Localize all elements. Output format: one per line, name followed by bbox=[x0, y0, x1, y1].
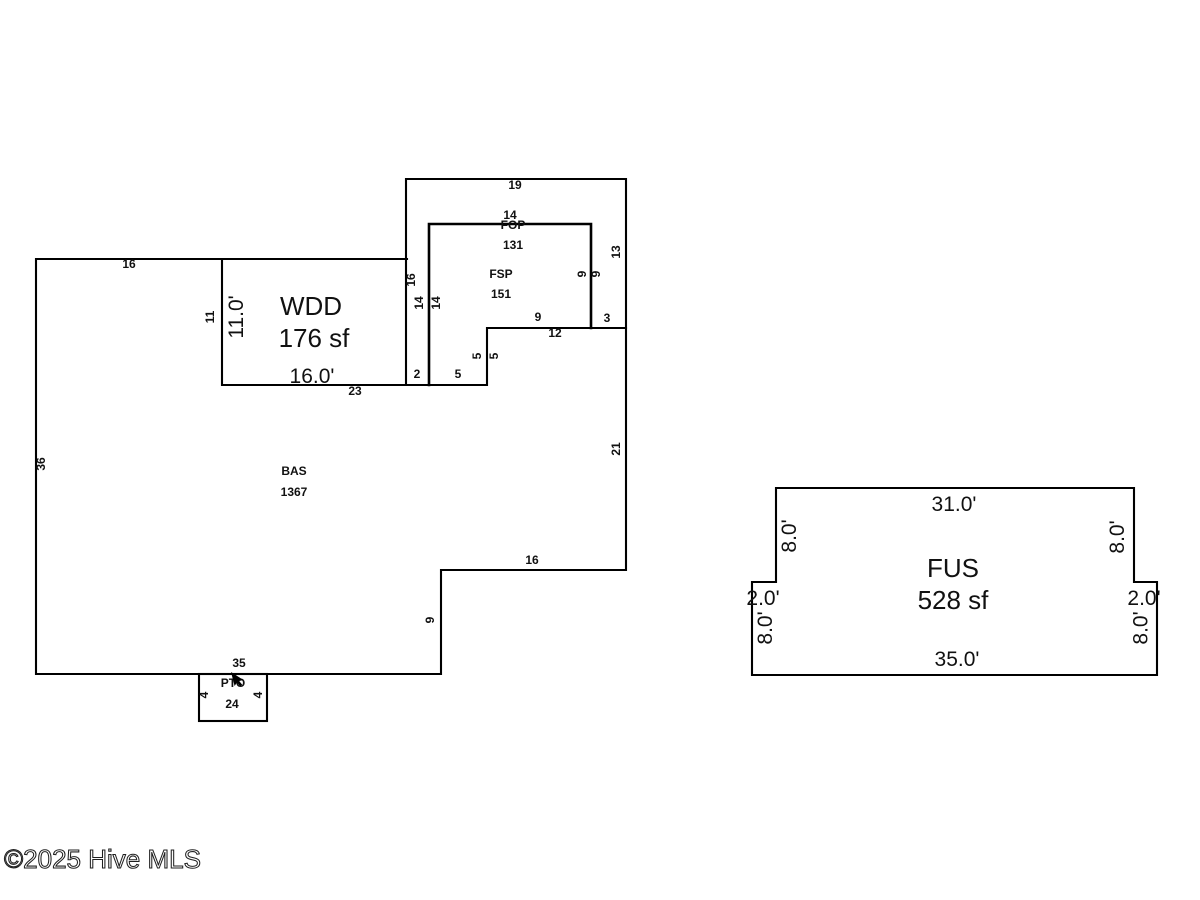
svg-text:176 sf: 176 sf bbox=[279, 323, 351, 353]
svg-text:23: 23 bbox=[348, 384, 362, 398]
svg-text:FUS: FUS bbox=[927, 553, 979, 583]
svg-text:9: 9 bbox=[575, 270, 589, 277]
svg-text:8.0': 8.0' bbox=[754, 611, 777, 644]
svg-text:31.0': 31.0' bbox=[932, 493, 977, 516]
svg-text:9: 9 bbox=[535, 310, 542, 324]
svg-text:8.0': 8.0' bbox=[1106, 520, 1129, 553]
svg-text:151: 151 bbox=[491, 287, 511, 301]
svg-text:2.0': 2.0' bbox=[1127, 587, 1160, 610]
svg-text:5: 5 bbox=[470, 352, 484, 359]
svg-text:5: 5 bbox=[487, 352, 501, 359]
svg-text:16.0': 16.0' bbox=[290, 365, 335, 388]
svg-text:1367: 1367 bbox=[281, 485, 308, 499]
svg-text:3: 3 bbox=[604, 311, 611, 325]
svg-text:11: 11 bbox=[203, 310, 217, 323]
svg-text:2: 2 bbox=[414, 367, 421, 381]
svg-text:FOP: FOP bbox=[501, 218, 526, 232]
svg-text:11.0': 11.0' bbox=[225, 295, 248, 338]
svg-text:131: 131 bbox=[503, 238, 523, 252]
svg-text:2.0': 2.0' bbox=[746, 587, 779, 610]
svg-text:WDD: WDD bbox=[280, 291, 342, 321]
svg-text:9: 9 bbox=[589, 270, 603, 277]
svg-text:14: 14 bbox=[429, 296, 443, 310]
svg-text:35: 35 bbox=[232, 656, 246, 670]
svg-text:16: 16 bbox=[122, 257, 136, 271]
svg-text:©2025 Hive MLS: ©2025 Hive MLS bbox=[4, 844, 201, 874]
svg-text:24: 24 bbox=[225, 697, 239, 711]
svg-text:13: 13 bbox=[609, 245, 623, 259]
svg-text:BAS: BAS bbox=[281, 464, 306, 478]
svg-text:14: 14 bbox=[412, 296, 426, 310]
svg-text:FSP: FSP bbox=[489, 267, 512, 281]
svg-text:16: 16 bbox=[404, 273, 418, 287]
svg-text:5: 5 bbox=[455, 367, 462, 381]
svg-text:4: 4 bbox=[251, 691, 265, 698]
svg-text:528 sf: 528 sf bbox=[918, 585, 990, 615]
svg-text:8.0': 8.0' bbox=[778, 519, 801, 552]
svg-text:12: 12 bbox=[548, 326, 562, 340]
svg-text:9: 9 bbox=[423, 616, 437, 623]
svg-text:19: 19 bbox=[508, 178, 522, 192]
svg-text:35.0': 35.0' bbox=[935, 648, 980, 671]
svg-text:4: 4 bbox=[197, 691, 211, 698]
svg-text:8.0': 8.0' bbox=[1130, 611, 1153, 644]
svg-text:36: 36 bbox=[34, 457, 48, 471]
svg-text:21: 21 bbox=[609, 442, 623, 456]
svg-text:16: 16 bbox=[525, 553, 539, 567]
